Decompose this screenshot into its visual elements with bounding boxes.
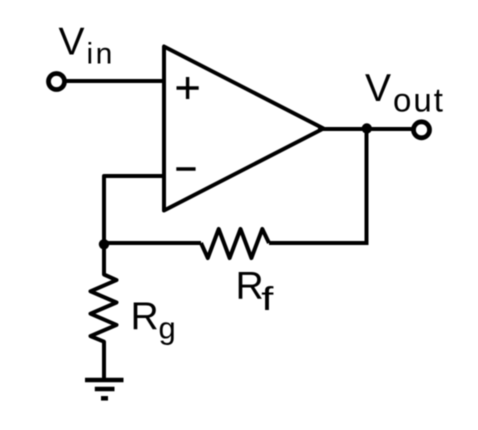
terminal Vout — [414, 122, 430, 138]
resistor Rg — [91, 246, 117, 380]
svg-text:V: V — [59, 21, 85, 64]
svg-text:f: f — [261, 281, 273, 318]
node output junction — [362, 123, 372, 133]
ground — [85, 380, 124, 398]
label Vin — [59, 21, 115, 71]
op-amp - pin label — [176, 167, 195, 171]
op-amp + pin label — [177, 77, 199, 99]
svg-text:out: out — [393, 81, 445, 118]
wire feedback bottom right — [269, 241, 369, 245]
wire Vin to op-amp + input — [64, 79, 164, 83]
wire feedback bottom left — [104, 241, 201, 245]
wire output — [318, 127, 414, 131]
svg-text:V: V — [365, 67, 391, 110]
svg-text:g: g — [159, 311, 176, 346]
terminal Vin — [49, 74, 65, 90]
svg-text:in: in — [87, 38, 115, 71]
op-amp U1 — [164, 47, 324, 211]
wire inverting stub — [104, 176, 164, 244]
label Rf — [236, 264, 274, 318]
label Rg — [131, 295, 176, 346]
resistor Rf — [201, 229, 269, 258]
svg-text:R: R — [131, 295, 159, 338]
label Vout — [365, 67, 445, 118]
node A (inverting junction) — [99, 239, 109, 249]
wire feedback vertical — [365, 129, 369, 245]
svg-text:R: R — [236, 264, 264, 307]
